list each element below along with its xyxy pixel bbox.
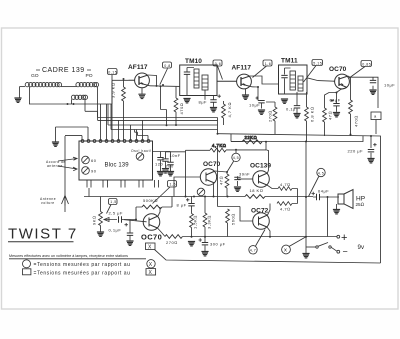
svg-text:0,1μ: 0,1μ (286, 107, 296, 112)
svg-text:+: + (341, 232, 347, 244)
svg-text:3,9 KΩ: 3,9 KΩ (111, 83, 116, 98)
svg-text:0,6: 0,6 (215, 62, 222, 66)
svg-text:470Ω: 470Ω (354, 115, 359, 127)
svg-text:TM11: TM11 (281, 58, 298, 65)
svg-text:18 KΩ: 18 KΩ (250, 188, 264, 193)
svg-text:10μF: 10μF (249, 103, 260, 108)
svg-text:5,15: 5,15 (313, 61, 322, 65)
svg-text:64μF: 64μF (330, 98, 341, 103)
svg-text:a: a (374, 114, 377, 119)
svg-text:Bloc 139: Bloc 139 (105, 163, 130, 169)
svg-text:9KΩ: 9KΩ (92, 216, 97, 225)
svg-text:AF117: AF117 (128, 64, 148, 71)
svg-text:270Ω: 270Ω (268, 110, 273, 122)
svg-text:1,6: 1,6 (265, 62, 272, 66)
svg-text:1,5: 1,5 (110, 200, 117, 204)
svg-text:0,15: 0,15 (108, 70, 117, 74)
svg-text:OC70: OC70 (141, 233, 162, 242)
svg-text:470Ω: 470Ω (179, 103, 184, 115)
svg-text:4,5: 4,5 (233, 156, 240, 160)
svg-text:22KΩ: 22KΩ (245, 135, 258, 140)
svg-text:0,1μF: 0,1μF (109, 228, 122, 233)
svg-text:4,7Ω: 4,7Ω (280, 207, 291, 212)
svg-text:3,3KΩ: 3,3KΩ (207, 215, 212, 229)
svg-text:=Tensions mesurées par rapport: =Tensions mesurées par rapport au (34, 270, 131, 276)
svg-text:10μF: 10μF (384, 83, 395, 88)
svg-text:OC70: OC70 (203, 161, 221, 168)
svg-text:Mesures effectuées avec un vol: Mesures effectuées avec un voltmètre à l… (9, 254, 128, 258)
svg-text:OC70: OC70 (329, 66, 347, 73)
svg-text:TM10: TM10 (185, 58, 202, 65)
svg-text:1,5KΩ: 1,5KΩ (193, 215, 198, 229)
svg-text:4,5: 4,5 (318, 171, 325, 175)
svg-text:6,8 KΩ: 6,8 KΩ (310, 107, 315, 122)
svg-text:60: 60 (91, 158, 97, 163)
svg-text:4,7: 4,7 (250, 249, 256, 253)
svg-text:560Ω: 560Ω (231, 213, 236, 225)
svg-text:=Tensions mesurées par rapport: =Tensions mesurées par rapport au (34, 262, 131, 268)
svg-text:OC72: OC72 (251, 208, 269, 215)
svg-text:64μF: 64μF (318, 189, 329, 194)
svg-text:CADRE 139: CADRE 139 (42, 67, 85, 74)
svg-text:300 μF: 300 μF (210, 242, 226, 247)
svg-text:25Ω: 25Ω (356, 202, 365, 207)
svg-text:AF117: AF117 (232, 65, 252, 72)
svg-text:220 μF: 220 μF (348, 149, 364, 154)
svg-text:90: 90 (91, 169, 97, 174)
svg-text:47Ω: 47Ω (328, 111, 333, 120)
svg-text:120: 120 (155, 162, 163, 167)
svg-text:TWIST 7: TWIST 7 (8, 226, 78, 243)
svg-text:4,7Ω: 4,7Ω (280, 182, 291, 187)
svg-text:9v: 9v (358, 244, 365, 251)
svg-text:PO: PO (86, 73, 93, 79)
svg-text:500KΩ: 500KΩ (143, 198, 158, 203)
svg-text:39nF: 39nF (239, 172, 250, 177)
svg-text:10nF: 10nF (170, 153, 181, 158)
svg-text:voiture: voiture (41, 201, 55, 205)
svg-text:0,8: 0,8 (164, 64, 171, 68)
svg-text:4,7 KΩ: 4,7 KΩ (227, 102, 232, 117)
svg-text:4,7KΩ: 4,7KΩ (212, 143, 226, 148)
svg-text:8μF: 8μF (199, 100, 208, 105)
svg-text:x: x (284, 248, 287, 254)
svg-text:270Ω: 270Ω (166, 240, 178, 245)
svg-text:GO: GO (31, 73, 39, 79)
svg-text:Osc! haut!: Osc! haut! (131, 149, 151, 153)
svg-text:47Ω: 47Ω (219, 176, 224, 185)
svg-text:2,5 μF: 2,5 μF (109, 211, 123, 216)
svg-text:8 μF: 8 μF (177, 203, 187, 208)
svg-text:1,5: 1,5 (170, 183, 177, 187)
svg-text:280: 280 (166, 164, 174, 169)
svg-text:−: − (343, 247, 348, 257)
svg-text:0,85: 0,85 (362, 62, 371, 66)
